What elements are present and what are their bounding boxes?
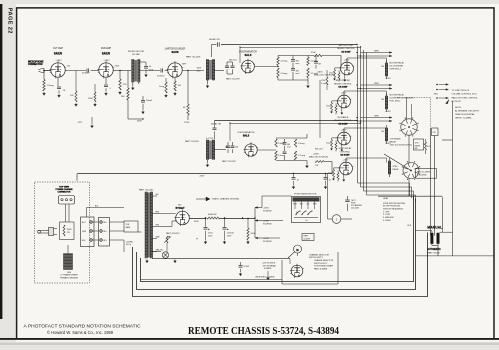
svg-text:SWITCH SEQUENCE:: SWITCH SEQUENCE: [383, 209, 404, 211]
svg-text:476: 476 [427, 146, 430, 148]
svg-text:2.2KV: 2.2KV [184, 122, 190, 124]
svg-text:ON MODELS S-43894: ON MODELS S-43894 [255, 277, 275, 279]
svg-text:2.2meg: 2.2meg [281, 73, 288, 75]
svg-text:LV TRANSFORMER: LV TRANSFORMER [60, 274, 78, 277]
svg-text:A PHOTOFACT STANDARD NOTATION: A PHOTOFACT STANDARD NOTATION SCHEMATIC [24, 324, 142, 329]
svg-text:470mmf: 470mmf [82, 73, 90, 75]
svg-text:YEL: YEL [381, 66, 384, 68]
svg-text:+265V: +265V [385, 78, 391, 80]
svg-text:+265V: +265V [385, 111, 391, 113]
svg-text:STATIC CHASSIS GROUND: STATIC CHASSIS GROUND [212, 198, 240, 201]
svg-text:1/2 6CM7: 1/2 6CM7 [341, 51, 351, 53]
svg-text:60 Cy: 60 Cy [126, 244, 131, 246]
svg-text:3. MEDIUM: 3. MEDIUM [383, 217, 394, 219]
svg-text:SOURCE: SOURCE [263, 210, 272, 212]
svg-text:56K ±5%: 56K ±5% [315, 149, 323, 151]
svg-text:PULL 6HY-1: PULL 6HY-1 [390, 100, 402, 102]
svg-text:5Y3GT: 5Y3GT [176, 206, 185, 210]
svg-text:1W: 1W [67, 232, 70, 234]
svg-text:POSITIONING MOTOR: POSITIONING MOTOR [294, 193, 317, 195]
svg-text:SWITCH DUTY: SWITCH DUTY [314, 263, 328, 265]
svg-text:115 VAC: 115 VAC [132, 53, 141, 56]
svg-text:DKM: DKM [67, 272, 72, 274]
svg-text:RAD) OR TONE CONTROL: RAD) OR TONE CONTROL [452, 96, 479, 99]
svg-text:10%: 10% [197, 70, 201, 72]
svg-text:GRAY: GRAY [383, 197, 389, 200]
svg-text:100K: 100K [197, 68, 202, 70]
svg-text:DELAY ON: DELAY ON [209, 38, 220, 41]
svg-text:PHONO MOTOR: PHONO MOTOR [128, 51, 145, 53]
svg-text:POWER CHANGE: POWER CHANGE [56, 188, 74, 191]
svg-text:+265V: +265V [317, 72, 324, 74]
svg-text:1. OFF: 1. OFF [383, 211, 390, 213]
svg-text:MOTOR CONT: MOTOR CONT [336, 80, 351, 82]
svg-text:150K: 150K [88, 98, 93, 100]
svg-text:1meg: 1meg [326, 106, 330, 108]
svg-text:+265V: +265V [385, 143, 391, 145]
svg-text:4TH STAGE: 4TH STAGE [390, 138, 402, 141]
svg-text:PART #52-2078: PART #52-2078 [222, 160, 236, 163]
svg-text:100-10M: 100-10M [351, 207, 359, 209]
svg-text:230V: 230V [200, 176, 206, 178]
svg-text:PART #10-5432: PART #10-5432 [139, 188, 154, 191]
svg-text:480: 480 [225, 147, 228, 149]
svg-text:POSITIONING SHAFT: POSITIONING SHAFT [314, 265, 334, 268]
svg-text:(COUNTER CLOCKWISE): (COUNTER CLOCKWISE) [390, 97, 414, 99]
svg-text:6AL5: 6AL5 [243, 133, 250, 137]
svg-text:RELAY: RELAY [393, 168, 400, 171]
svg-text:2mfd: 2mfd [208, 233, 212, 235]
svg-text:mmf: mmf [287, 146, 291, 148]
svg-text:mmf: mmf [296, 63, 300, 65]
svg-text:+265V: +265V [313, 154, 320, 156]
svg-text:(CLOCKWISE): (CLOCKWISE) [390, 65, 404, 67]
svg-text:AUTOMATIC: AUTOMATIC [427, 248, 441, 251]
svg-text:1.5meg: 1.5meg [47, 85, 55, 87]
svg-text:CONNECTOR: CONNECTOR [28, 64, 43, 66]
svg-text:20mfd: 20mfd [146, 100, 152, 102]
svg-text:24: 24 [296, 212, 298, 214]
svg-text:6AU6: 6AU6 [102, 52, 110, 56]
svg-text:+265V: +265V [263, 208, 270, 210]
svg-text:600Ω 5W: 600Ω 5W [208, 214, 217, 216]
svg-text:5A 6CM7: 5A 6CM7 [339, 86, 349, 89]
svg-text:.47: .47 [297, 180, 300, 182]
svg-text:PART 45-68EA: PART 45-68EA [314, 267, 328, 270]
svg-text:+26V SOURCE: +26V SOURCE [262, 263, 276, 265]
svg-text:PART #52-2078: PART #52-2078 [186, 56, 201, 59]
svg-text:+265V: +265V [55, 60, 62, 62]
svg-text:1.2 meg: 1.2 meg [298, 155, 305, 157]
svg-text:2ND AMP: 2ND AMP [101, 47, 112, 50]
svg-text:GRN: GRN [374, 51, 379, 53]
svg-text:4.7K: 4.7K [123, 84, 128, 86]
svg-text:100mfd: 100mfd [227, 233, 233, 235]
svg-text:ORN: ORN [374, 116, 379, 118]
svg-text:CHANGE SELECTOR: CHANGE SELECTOR [314, 259, 334, 262]
svg-text:+130V: +130V [263, 221, 270, 223]
svg-text:HOTH CP: HOTH CP [452, 101, 462, 103]
svg-text:S-43894: S-43894 [264, 268, 272, 270]
svg-text:470mmf: 470mmf [157, 75, 165, 77]
svg-text:178: 178 [433, 132, 436, 134]
svg-text:1ST AMP: 1ST AMP [53, 47, 63, 50]
svg-text:& 41-43926: & 41-43926 [417, 174, 426, 176]
svg-text:STEP SWITCH SHOWN: STEP SWITCH SHOWN [383, 203, 406, 205]
svg-text:+95V NOMINAL: +95V NOMINAL [262, 264, 276, 267]
svg-text:SAFE: SAFE [126, 226, 132, 229]
svg-text:PRIMARY WINDING: PRIMARY WINDING [60, 276, 78, 279]
svg-text:PAGE 22: PAGE 22 [6, 8, 12, 34]
svg-text:UNITS - S-43894: UNITS - S-43894 [455, 118, 472, 120]
svg-text:PART #63-SK: PART #63-SK [427, 251, 440, 254]
svg-text:RELAY CONTROL: RELAY CONTROL [334, 82, 353, 85]
svg-text:YEL: YEL [381, 131, 384, 133]
svg-text:390K: 390K [67, 229, 72, 231]
svg-text:REMOTE CHASSIS S-53724, S-4389: REMOTE CHASSIS S-53724, S-43894 [188, 326, 340, 337]
svg-text:CONTROL: CONTROL [340, 151, 351, 153]
svg-text:+265V: +265V [103, 60, 110, 62]
svg-text:MOTOR RELAY: MOTOR RELAY [390, 62, 405, 65]
svg-text:© Howard W. Sams & Co., Inc. 1: © Howard W. Sams & Co., Inc. 1959 [47, 330, 114, 335]
svg-text:6AU6: 6AU6 [54, 52, 62, 56]
svg-text:TO JUNCTION OF: TO JUNCTION OF [452, 90, 470, 92]
svg-text:+130V: +130V [263, 238, 270, 240]
svg-text:K4SP 6HY-1: K4SP 6HY-1 [390, 68, 402, 70]
svg-text:SWITCH DIRTY: SWITCH DIRTY [309, 257, 324, 259]
svg-text:SOURCE: SOURCE [263, 223, 272, 225]
svg-text:STEP: STEP [393, 166, 399, 168]
svg-text:GRN: GRN [82, 231, 87, 233]
svg-text:2.2meg: 2.2meg [298, 143, 304, 145]
svg-text:6AT: 6AT [415, 147, 418, 150]
svg-text:YEL: YEL [381, 99, 384, 101]
svg-text:6AU6: 6AU6 [171, 50, 179, 54]
svg-text:NOTE:: NOTE: [455, 107, 462, 109]
svg-text:1 meg: 1 meg [321, 83, 326, 85]
svg-text:2. LOW: 2. LOW [383, 214, 390, 216]
svg-text:-22V: -22V [78, 122, 83, 124]
svg-text:PART #52-2078: PART #52-2078 [185, 140, 199, 143]
svg-text:2.2meg: 2.2meg [278, 155, 284, 157]
svg-text:265V: 265V [137, 121, 143, 123]
svg-text:41-6099: 41-6099 [304, 238, 311, 240]
svg-text:4. HIGH: 4. HIGH [383, 220, 391, 222]
svg-text:.47: .47 [329, 180, 332, 182]
svg-text:7S4Y (CLOCKW-GOES): 7S4Y (CLOCKW-GOES) [390, 144, 412, 146]
svg-text:(RAD-OSC SOURCE): (RAD-OSC SOURCE) [309, 156, 328, 159]
svg-text:1meg: 1meg [326, 143, 330, 145]
svg-text:6AL5: 6AL5 [245, 53, 252, 57]
svg-text:GRY: GRY [182, 64, 187, 66]
svg-text:YEL: YEL [156, 194, 159, 196]
svg-text:MOTOR CONT: MOTOR CONT [339, 45, 354, 47]
svg-text:PART #52-2078: PART #52-2078 [226, 78, 240, 81]
svg-text:MANUAL: MANUAL [427, 225, 442, 229]
svg-text:354V: 354V [194, 221, 199, 223]
svg-text:50 SW: 50 SW [244, 266, 250, 268]
svg-text:220V: 220V [115, 66, 120, 68]
svg-text:SOURCE: SOURCE [263, 241, 272, 243]
svg-text:STEP RELAY: STEP RELAY [339, 147, 352, 150]
svg-text:mmf: mmf [296, 73, 300, 75]
svg-text:120VAC: 120VAC [126, 240, 134, 243]
svg-text:ALTERNATE CIRCUITRY: ALTERNATE CIRCUITRY [455, 110, 480, 113]
svg-text:480 mmf: 480 mmf [229, 60, 237, 62]
svg-text:IN OFF POSITION.: IN OFF POSITION. [383, 206, 401, 208]
svg-text:ORN: ORN [374, 83, 379, 85]
svg-text:PART #63-2113: PART #63-2113 [166, 232, 179, 235]
svg-text:PART 41-43894: PART 41-43894 [417, 170, 430, 173]
svg-text:BI-STABLE: BI-STABLE [338, 116, 349, 119]
svg-text:VOLUME CONTROL (VOL: VOLUME CONTROL (VOL [452, 94, 478, 96]
svg-text:1meg: 1meg [159, 86, 164, 88]
svg-text:RELAY CONTROL: RELAY CONTROL [337, 47, 356, 50]
svg-text:DELAY ON: DELAY ON [211, 123, 222, 126]
svg-text:1/2 6CM7: 1/2 6CM7 [340, 155, 350, 157]
svg-text:M7: M7 [319, 64, 322, 66]
svg-text:GRN: GRN [434, 94, 439, 96]
svg-text:MOTOR RELAY: MOTOR RELAY [390, 94, 405, 97]
svg-text:1meg: 1meg [328, 173, 332, 175]
svg-text:CONNECTOR: CONNECTOR [58, 192, 71, 194]
svg-text:270K: 270K [311, 52, 316, 54]
svg-text:2.2meg: 2.2meg [281, 61, 288, 63]
svg-text:USED IN HOSPITAL: USED IN HOSPITAL [455, 113, 475, 116]
svg-text:M: M [296, 248, 298, 252]
svg-text:170K: 170K [321, 80, 326, 82]
svg-text:1meg: 1meg [329, 73, 333, 75]
